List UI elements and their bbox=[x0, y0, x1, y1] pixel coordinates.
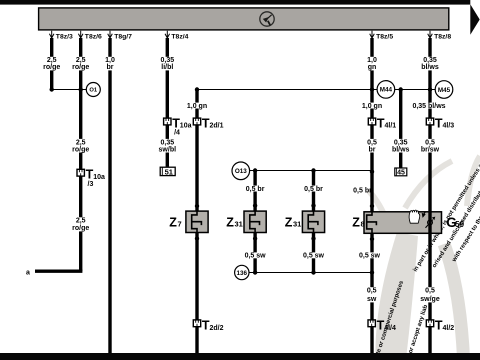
svg-text:ro/ge: ro/ge bbox=[43, 64, 60, 71]
svg-text:136: 136 bbox=[237, 270, 248, 277]
wire br from T8g/7 to ground rail bbox=[108, 38, 111, 353]
junction dot G top bbox=[311, 168, 315, 172]
svg-text:7: 7 bbox=[177, 220, 181, 229]
continuation arrow right bbox=[470, 4, 479, 35]
svg-text:4l/4: 4l/4 bbox=[384, 325, 396, 332]
svg-text:51: 51 bbox=[165, 167, 173, 176]
svg-text:Z: Z bbox=[285, 215, 293, 229]
connector T4l/2 bbox=[426, 320, 433, 327]
junction dot L bbox=[428, 87, 432, 91]
junction dot K bbox=[399, 87, 403, 91]
svg-text:2,5: 2,5 bbox=[47, 57, 57, 64]
svg-text:sw/bl: sw/bl bbox=[159, 146, 177, 153]
heated seat element Z8 with sensor G59 box bbox=[364, 212, 442, 234]
svg-text:M45: M45 bbox=[438, 87, 451, 94]
svg-text:2d/1: 2d/1 bbox=[210, 123, 224, 130]
connection 136 bbox=[235, 265, 249, 279]
svg-text:0,5 sw: 0,5 sw bbox=[303, 253, 325, 260]
svg-text:0,5: 0,5 bbox=[367, 139, 377, 146]
junction dot E bbox=[195, 87, 199, 91]
junction dot F top bbox=[253, 168, 257, 172]
svg-text:4l/3: 4l/3 bbox=[443, 123, 455, 130]
svg-text:/3: /3 bbox=[88, 181, 94, 188]
svg-text:10a: 10a bbox=[93, 174, 105, 181]
svg-text:0,35: 0,35 bbox=[160, 57, 174, 64]
dot above Z7 bbox=[195, 204, 199, 208]
svg-text:bl/ws: bl/ws bbox=[421, 64, 439, 71]
svg-text:M44: M44 bbox=[380, 87, 393, 94]
svg-text:br: br bbox=[107, 64, 114, 71]
connector T10a/4 bbox=[164, 118, 171, 125]
heater element inside Z8 bbox=[367, 212, 377, 234]
svg-text:T8z/6: T8z/6 bbox=[85, 34, 102, 41]
svg-text:T8z/3: T8z/3 bbox=[56, 34, 73, 41]
connector T10a/3 bbox=[77, 169, 84, 176]
svg-text:2d/2: 2d/2 bbox=[210, 325, 224, 332]
pin arrow T8z/8 bbox=[428, 31, 433, 38]
svg-text:59: 59 bbox=[455, 220, 464, 229]
svg-text:gn: gn bbox=[368, 64, 377, 71]
svg-text:0,5 br: 0,5 br bbox=[246, 186, 265, 193]
connector T4l/3 bbox=[426, 118, 433, 125]
svg-text:4l/1: 4l/1 bbox=[385, 123, 397, 130]
svg-text:1,0: 1,0 bbox=[105, 57, 115, 64]
svg-text:O13: O13 bbox=[235, 168, 247, 175]
connector T4l/4 bbox=[368, 320, 375, 327]
top black bar bbox=[0, 0, 470, 5]
node line 136 bbox=[249, 272, 373, 274]
sensor symbol G59 on wire bbox=[428, 220, 433, 225]
svg-text:bl/ws: bl/ws bbox=[392, 146, 410, 153]
jumper wire A-B bbox=[52, 89, 87, 91]
bottom ground rail bbox=[0, 353, 480, 360]
svg-text:br/sw: br/sw bbox=[421, 146, 440, 153]
wire sw from Z31 right bbox=[312, 233, 315, 273]
pin arrow T8z/5 bbox=[370, 31, 375, 38]
svg-text:T8z/4: T8z/4 bbox=[171, 34, 188, 41]
connector T4l/1 bbox=[368, 118, 375, 125]
bus bar rail (30a) bbox=[39, 8, 449, 30]
svg-text:2,5: 2,5 bbox=[76, 57, 86, 64]
svg-text:1,0 gn: 1,0 gn bbox=[187, 103, 207, 110]
connection O1 (plus connector) bbox=[86, 83, 100, 97]
junction dot G bottom bbox=[311, 270, 315, 274]
terminal K symbol on bus bar bbox=[260, 12, 274, 26]
svg-text:Z: Z bbox=[352, 215, 360, 229]
reference circle M44 bbox=[377, 81, 395, 99]
junction dot A bbox=[50, 87, 54, 91]
wire br to Z31 right bbox=[312, 171, 315, 212]
svg-text:0,5: 0,5 bbox=[425, 288, 435, 295]
svg-text:31: 31 bbox=[293, 220, 301, 229]
connector T2d/1 bbox=[193, 118, 200, 125]
terminal box 51 bbox=[160, 167, 175, 175]
junction dot J bbox=[370, 87, 374, 91]
pin arrow T8z/6 bbox=[78, 31, 83, 38]
dot below Z31 right bbox=[311, 236, 315, 240]
svg-text:0,35: 0,35 bbox=[423, 57, 437, 64]
wire T8z/8 through G59 to ground rail bbox=[428, 38, 431, 353]
svg-text:sw/ge: sw/ge bbox=[420, 296, 440, 303]
svg-text:Z: Z bbox=[169, 215, 177, 229]
svg-text:8: 8 bbox=[360, 220, 364, 229]
svg-text:0,35: 0,35 bbox=[160, 139, 174, 146]
wire Z7 to ground rail bbox=[195, 233, 198, 354]
wire ro/ge from T8z/3 bbox=[50, 38, 53, 90]
svg-text:T8g/7: T8g/7 bbox=[114, 34, 132, 41]
watermark VW logo arc upper-left bbox=[405, 161, 452, 208]
dot below Z7 bbox=[195, 236, 199, 240]
junction dot 136 line end bbox=[370, 270, 374, 274]
hand icon (manual control) bbox=[409, 210, 420, 223]
svg-text:br: br bbox=[369, 146, 376, 153]
node line O13 bbox=[249, 170, 372, 172]
dot above Z31 right bbox=[311, 203, 315, 207]
svg-text:0,5 sw: 0,5 sw bbox=[245, 253, 267, 260]
svg-text:2,5: 2,5 bbox=[76, 218, 86, 225]
watermark VW logo band right bbox=[444, 244, 464, 360]
connection O13 bbox=[232, 162, 250, 180]
svg-text:1,0: 1,0 bbox=[367, 57, 377, 64]
terminal box 45 bbox=[395, 168, 407, 176]
svg-text:ro/ge: ro/ge bbox=[72, 225, 89, 232]
svg-text:ro/ge: ro/ge bbox=[72, 64, 89, 71]
svg-text:sw: sw bbox=[367, 296, 377, 303]
junction dot F bottom bbox=[253, 270, 257, 274]
svg-text:4l/2: 4l/2 bbox=[443, 325, 455, 332]
svg-text:0,5: 0,5 bbox=[367, 288, 377, 295]
wire bl/ws to terminal 45 bbox=[399, 90, 402, 168]
svg-text:0,5: 0,5 bbox=[425, 139, 435, 146]
svg-text:0,35: 0,35 bbox=[394, 139, 408, 146]
svg-text:2,5: 2,5 bbox=[76, 139, 86, 146]
svg-text:a: a bbox=[26, 269, 30, 276]
wire br to Z31 left bbox=[253, 171, 256, 212]
svg-text:T8z/5: T8z/5 bbox=[376, 34, 393, 41]
reference circle M45 bbox=[435, 81, 453, 99]
watermark VW logo arc upper-right bbox=[467, 156, 480, 206]
wire elbow to node a bbox=[35, 270, 82, 273]
wire G59 left pin to ground rail bbox=[370, 233, 373, 353]
svg-text:0,5 br: 0,5 br bbox=[353, 187, 372, 194]
svg-text:/4: /4 bbox=[174, 130, 180, 137]
pin arrow T8g/7 bbox=[108, 31, 113, 38]
wire li/bl from T8z/4 bbox=[166, 38, 169, 167]
actuation arrow bbox=[424, 212, 426, 214]
watermark copyright text bbox=[371, 152, 480, 360]
svg-text:0,35 bl/ws: 0,35 bl/ws bbox=[412, 103, 445, 110]
svg-text:10a: 10a bbox=[180, 123, 192, 130]
heater element Z31 left bbox=[244, 211, 266, 232]
svg-text:31: 31 bbox=[234, 220, 242, 229]
pin arrow T8z/4 bbox=[165, 31, 170, 38]
dot below Z31 left bbox=[253, 236, 257, 240]
svg-text:li/bl: li/bl bbox=[161, 64, 173, 71]
dot above Z31 left bbox=[253, 203, 257, 207]
node line to M44/M45 bbox=[197, 89, 435, 91]
svg-text:ro/ge: ro/ge bbox=[72, 146, 89, 153]
svg-text:T8z/8: T8z/8 bbox=[434, 34, 451, 41]
dot above G59 box bbox=[370, 204, 374, 208]
svg-text:Z: Z bbox=[226, 215, 234, 229]
watermark VW logo band wide bbox=[375, 232, 418, 360]
heater element Z7 bbox=[186, 211, 208, 232]
svg-text:45: 45 bbox=[397, 170, 405, 177]
wire ro/ge from T8z/6 bbox=[79, 38, 82, 271]
heater element Z31 right bbox=[302, 211, 324, 232]
svg-text:1,0 gn: 1,0 gn bbox=[362, 103, 382, 110]
junction dot O13 line end bbox=[370, 170, 374, 174]
svg-text:O1: O1 bbox=[89, 88, 98, 94]
wire T8z/5 to G59 box bbox=[370, 38, 373, 212]
watermark VW logo arc top-left of band bbox=[368, 190, 389, 228]
wire sw from Z31 left bbox=[253, 233, 256, 273]
wire gn to Z7 bbox=[195, 90, 198, 212]
junction dot B bbox=[79, 87, 83, 91]
svg-text:0,5 br: 0,5 br bbox=[304, 186, 323, 193]
pin arrow T8z/3 bbox=[49, 31, 54, 38]
dot below G59 box bbox=[370, 237, 374, 241]
wire through G59 (right pin) bbox=[428, 211, 431, 234]
connector T2d/2 bbox=[193, 320, 200, 327]
svg-text:0,5 sw: 0,5 sw bbox=[359, 253, 381, 260]
